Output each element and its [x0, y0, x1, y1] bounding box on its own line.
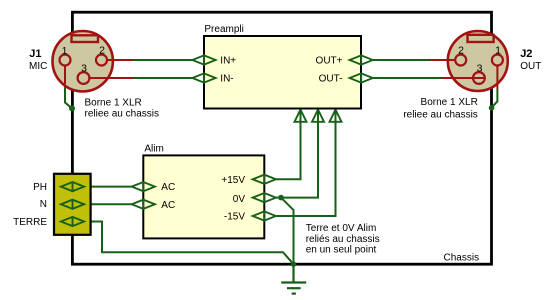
svg-text:1: 1	[495, 45, 501, 57]
svg-text:TERRE: TERRE	[13, 217, 47, 228]
J2 pin 3	[473, 72, 485, 84]
svg-text:OUT-: OUT-	[319, 74, 343, 85]
wire: +15V rail	[276, 110, 301, 180]
wire through arrow 3	[335, 110, 337, 125]
svg-text:2: 2	[99, 45, 105, 57]
svg-text:Borne 1 XLR: Borne 1 XLR	[85, 98, 142, 109]
node: J2 shell junction	[489, 105, 495, 111]
terminal PH	[61, 182, 84, 191]
mains terminal block PH/N/TERRE	[54, 174, 91, 235]
J2 pin 3 lead	[442, 77, 485, 79]
J2 pin numbers	[458, 45, 501, 75]
svg-text:en un seul point: en un seul point	[306, 245, 377, 256]
terminal AC 1	[132, 182, 155, 191]
J1 pin 2 lead	[102, 59, 134, 61]
J2 pin 1	[492, 55, 503, 66]
svg-text:reliee au chassis: reliee au chassis	[85, 108, 159, 119]
wire: J1 pin1 to chassis	[65, 84, 72, 108]
wire: -15V rail	[276, 110, 336, 217]
J2 pin 2	[455, 55, 466, 66]
block Alim PSU	[143, 155, 264, 238]
svg-text:AC: AC	[161, 200, 175, 211]
wire: N to AC	[84, 203, 132, 205]
power arrow into preamp +15V	[295, 110, 307, 122]
connector J1 XLR body	[52, 31, 112, 91]
svg-text:2: 2	[458, 45, 464, 57]
svg-text:reliee au chassis: reliee au chassis	[403, 109, 477, 120]
wire: J2 pin1 to chassis	[492, 89, 498, 108]
svg-text:+15V: +15V	[221, 175, 245, 186]
svg-text:OUT+: OUT+	[316, 56, 343, 67]
chassis	[72, 12, 491, 264]
svg-text:Terre et 0V Alim: Terre et 0V Alim	[306, 223, 377, 234]
wire through arrow 2	[317, 110, 319, 125]
block Preampli U1	[204, 36, 361, 109]
svg-text:N: N	[40, 199, 47, 210]
svg-text:Alim: Alim	[144, 144, 163, 155]
svg-text:0V: 0V	[233, 194, 246, 205]
wire: OUT+ net	[373, 59, 431, 61]
terminal -15V	[253, 211, 276, 220]
svg-text:-15V: -15V	[224, 212, 245, 223]
J1 pin 1 lead	[64, 60, 66, 84]
terminal AC 2	[132, 200, 155, 209]
terminal IN-	[192, 73, 215, 82]
svg-text:Borne 1 XLR: Borne 1 XLR	[421, 97, 478, 108]
node: J1 shell junction	[69, 105, 75, 111]
svg-text:Preampli: Preampli	[204, 24, 243, 35]
terminal OUT+	[350, 55, 373, 64]
J1 pin 1	[60, 55, 71, 66]
svg-text:J2: J2	[520, 48, 532, 60]
connector J2 XLR body	[448, 31, 508, 91]
power arrow into preamp -15V	[330, 110, 342, 122]
wire: OUT- net	[373, 77, 443, 79]
svg-text:reliés au chassis: reliés au chassis	[306, 234, 380, 245]
terminal 0V	[253, 193, 276, 202]
J1 pin 3 lead	[84, 77, 134, 79]
wire: 0V rail	[276, 110, 318, 198]
terminal OUT-	[350, 73, 373, 82]
J1 pin numbers	[62, 45, 106, 75]
power arrow into preamp 0V	[312, 110, 324, 122]
wire: IN- net	[133, 77, 193, 79]
terminal +15V	[253, 175, 276, 184]
wire: TERRE to chassis point	[84, 222, 294, 265]
svg-text:AC: AC	[161, 182, 175, 193]
svg-text:PH: PH	[33, 182, 47, 193]
terminal N	[61, 200, 84, 209]
svg-text:OUT: OUT	[520, 61, 541, 72]
terminal IN+	[192, 55, 215, 64]
svg-text:3: 3	[477, 63, 483, 75]
svg-text:J1: J1	[29, 48, 41, 60]
svg-text:IN+: IN+	[220, 56, 236, 67]
node: chassis single point	[291, 261, 297, 267]
node: 0V junction	[278, 195, 284, 201]
J1 pin 3	[78, 72, 90, 84]
wire: 0V to chassis single point	[281, 198, 294, 265]
wire through arrow 1	[300, 110, 302, 125]
wire: IN+ net	[133, 59, 193, 61]
svg-text:1: 1	[62, 45, 68, 57]
svg-text:3: 3	[81, 63, 87, 75]
svg-text:IN-: IN-	[220, 74, 233, 85]
J2 pin 1 lead	[496, 60, 498, 89]
svg-text:Chassis: Chassis	[444, 252, 480, 263]
J2 pin 2 lead	[430, 59, 461, 61]
terminal TERRE	[61, 217, 84, 226]
wire: PH to AC	[84, 186, 132, 188]
J1 pin 2	[96, 55, 107, 66]
ground	[281, 264, 306, 293]
svg-text:MIC: MIC	[29, 61, 47, 72]
